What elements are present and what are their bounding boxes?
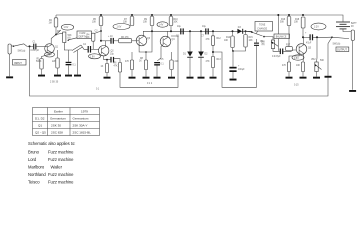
svg-text:D1, D2: D1, D2	[35, 116, 45, 120]
svg-text:VR2: VR2	[311, 59, 316, 61]
svg-text:10K: 10K	[143, 22, 148, 24]
svg-text:Q1: Q1	[38, 123, 42, 127]
svg-text:Fuzz machine: Fuzz machine	[48, 180, 74, 185]
svg-text:Lord: Lord	[28, 157, 37, 162]
svg-text:47K: 47K	[206, 61, 211, 63]
svg-text:500K: 500K	[36, 61, 42, 63]
svg-text:R13: R13	[217, 59, 222, 61]
svg-text:TONE: TONE	[259, 25, 266, 27]
svg-text:SW1(a): SW1(a)	[18, 51, 26, 53]
svg-text:1.6V: 1.6V	[117, 27, 122, 29]
svg-text:R15: R15	[249, 37, 254, 39]
svg-text:+ 10: + 10	[108, 36, 113, 38]
svg-text:0.15: 0.15	[294, 85, 299, 87]
svg-text:Earlier: Earlier	[54, 109, 63, 113]
svg-text:50K: 50K	[320, 60, 325, 62]
svg-text:2SK 30: 2SK 30	[51, 123, 61, 127]
svg-text:OUTPUT: OUTPUT	[337, 49, 347, 52]
svg-text:100μF: 100μF	[238, 69, 245, 71]
svg-text:47μF: 47μF	[306, 43, 312, 45]
svg-text:1979: 1979	[81, 109, 88, 113]
svg-text:10K: 10K	[86, 37, 91, 39]
svg-text:BALANCE: BALANCE	[276, 35, 287, 38]
svg-text:Schematic also applies to:: Schematic also applies to:	[28, 141, 75, 146]
svg-text:2SK 30A-Y: 2SK 30A-Y	[73, 123, 88, 127]
svg-text:10μ: 10μ	[177, 26, 182, 28]
svg-text:10K: 10K	[92, 22, 97, 24]
svg-text:10K: 10K	[174, 22, 179, 24]
svg-text:1K: 1K	[101, 66, 104, 68]
svg-text:(A): (A)	[68, 37, 71, 40]
svg-text:R6 47K: R6 47K	[121, 37, 129, 39]
svg-text:22K: 22K	[52, 61, 57, 63]
svg-text:Fuzz machine: Fuzz machine	[48, 172, 74, 177]
svg-text:R17: R17	[286, 45, 291, 47]
svg-text:CHANGE: CHANGE	[257, 27, 267, 30]
svg-text:INPUT: INPUT	[14, 61, 22, 65]
svg-text:Wailer: Wailer	[51, 164, 63, 169]
svg-text:50K: 50K	[280, 22, 285, 24]
svg-text:Marlboro: Marlboro	[28, 164, 45, 169]
svg-text:R12: R12	[217, 38, 222, 40]
svg-text:1.6V: 1.6V	[64, 27, 69, 29]
svg-text:Q2 - Q5: Q2 - Q5	[35, 130, 46, 134]
svg-text:2SC 1815-BL: 2SC 1815-BL	[73, 130, 92, 134]
svg-text:10μ: 10μ	[202, 26, 207, 28]
svg-text:1.9V: 1.9V	[90, 56, 95, 58]
svg-text:R14: R14	[226, 37, 231, 39]
svg-text:FUZZ: FUZZ	[80, 33, 86, 35]
svg-text:47K: 47K	[282, 65, 287, 67]
svg-text:2SC 828: 2SC 828	[51, 130, 63, 134]
svg-text:0.5V: 0.5V	[294, 58, 299, 60]
svg-text:BATT: BATT	[351, 22, 357, 25]
svg-text:47K: 47K	[114, 66, 119, 68]
svg-text:Fuzz machine: Fuzz machine	[48, 157, 74, 162]
svg-text:Northland: Northland	[28, 172, 46, 177]
svg-text:9V: 9V	[351, 26, 354, 28]
svg-text:10K: 10K	[123, 22, 128, 24]
svg-text:1.4V: 1.4V	[159, 25, 164, 27]
svg-text:1K: 1K	[139, 61, 142, 63]
svg-text:47K: 47K	[206, 39, 211, 41]
svg-text:10K: 10K	[294, 22, 299, 24]
svg-text:Germanium: Germanium	[50, 116, 66, 120]
svg-text:10K: 10K	[224, 40, 229, 42]
svg-text:10K: 10K	[296, 65, 301, 67]
svg-text:47K: 47K	[125, 61, 130, 63]
svg-text:3.2V: 3.2V	[314, 27, 319, 29]
svg-text:0.047μF: 0.047μF	[272, 56, 281, 58]
svg-text:Bruno: Bruno	[28, 149, 40, 154]
svg-text:0.047μF: 0.047μF	[31, 50, 40, 52]
svg-text:SW1(b): SW1(b)	[333, 44, 341, 46]
svg-text:(B): (B)	[262, 44, 265, 46]
svg-text:Teisco: Teisco	[28, 180, 40, 185]
svg-text:1M: 1M	[49, 23, 52, 25]
svg-text:22K: 22K	[175, 61, 180, 63]
svg-text:2 SK 30: 2 SK 30	[50, 82, 59, 84]
svg-text:Fuzz machine: Fuzz machine	[48, 149, 74, 154]
svg-text:10K: 10K	[249, 40, 254, 42]
svg-text:10μ: 10μ	[110, 54, 115, 56]
svg-text:0 1 2: 0 1 2	[147, 83, 153, 85]
svg-text:Germanium: Germanium	[73, 116, 89, 120]
